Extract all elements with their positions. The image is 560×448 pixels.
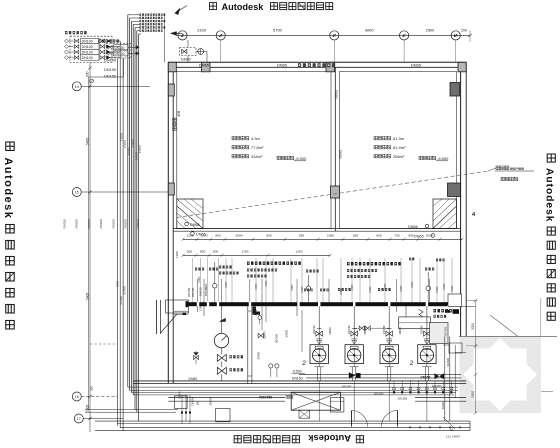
svg-text:DN65: DN65 — [257, 352, 261, 360]
svg-text:5700: 5700 — [273, 28, 282, 33]
vertical dimension in watermark — [475, 300, 477, 413]
discharge below pump P4 — [426, 364, 428, 367]
svg-text:DN65: DN65 — [263, 332, 267, 340]
small valve X — [258, 333, 263, 337]
tank bottom wall — [173, 228, 460, 230]
svg-text:Autodesk: Autodesk — [544, 168, 555, 222]
svg-text:-5.500: -5.500 — [292, 370, 302, 374]
svg-text:900*900: 900*900 — [510, 167, 524, 171]
fire pump P4 — [418, 345, 436, 364]
svg-text:DN100: DN100 — [82, 56, 93, 60]
stair wall outside left wall — [156, 300, 158, 334]
svg-text:1700: 1700 — [242, 250, 249, 254]
landing box — [166, 300, 189, 313]
label pump connectors — [65, 31, 67, 34]
valve stack above pump P2 — [351, 331, 358, 336]
grid bubble 15 — [72, 188, 81, 197]
pipe main 2 — [129, 18, 131, 390]
fire dept connection box 2 (dashed) — [106, 44, 131, 58]
grid bubble 14 — [72, 82, 81, 91]
connector row 3 — [65, 50, 69, 54]
column top-right corner — [458, 62, 466, 72]
tank inner wall left tank — [177, 72, 331, 229]
pipe main 3 — [130, 21, 132, 392]
svg-text:DN65: DN65 — [369, 286, 372, 293]
svg-text:1000: 1000 — [426, 234, 433, 238]
pit box A — [175, 396, 188, 409]
svg-text:DN100: DN100 — [115, 52, 125, 56]
suction drop to pump P1 — [318, 306, 320, 345]
svg-text:2500: 2500 — [426, 28, 435, 33]
drop pipes below header — [196, 306, 198, 312]
discharge manifold line 1 — [299, 374, 461, 376]
svg-text:600: 600 — [376, 234, 381, 238]
svg-text:DN65: DN65 — [411, 63, 421, 68]
main suction header pipe — [188, 302, 447, 306]
valve stack above pump P1 — [316, 331, 323, 336]
svg-text:DN100: DN100 — [82, 40, 93, 44]
valve stack above pump P3 — [386, 331, 393, 336]
secondary riser turns — [116, 424, 118, 426]
right tank level label — [419, 156, 423, 160]
pipe legend labels top-left — [140, 14, 142, 16]
bottom pipe run 1 — [128, 386, 458, 388]
svg-text:DN50: DN50 — [285, 330, 289, 338]
fire pump P3 — [380, 345, 398, 364]
bold label 2xDN100 — [434, 309, 437, 312]
svg-text:DN65: DN65 — [451, 285, 454, 292]
expansion joint — [419, 310, 423, 318]
svg-text:XHS-3: XHS-3 — [127, 147, 131, 156]
pipe main 4 — [132, 24, 134, 395]
svg-text:3000: 3000 — [236, 234, 243, 238]
svg-text:DN100: DN100 — [104, 58, 117, 63]
svg-text:DN150: DN150 — [87, 219, 91, 229]
svg-text:500: 500 — [213, 250, 218, 254]
door swing — [161, 314, 178, 333]
svg-text:DN65: DN65 — [414, 235, 424, 239]
pressure gauge — [221, 306, 223, 333]
junction nodes row — [393, 387, 396, 390]
svg-text:DN65: DN65 — [400, 285, 403, 292]
fire dept connection box 1 (dashed) — [70, 36, 112, 62]
stub pipes above header — [196, 279, 198, 302]
column right wall upper — [450, 83, 460, 97]
header end cap left — [186, 301, 189, 307]
title text right: Autodesk educational (vertical) — [544, 154, 556, 320]
discharge below pump P1 — [318, 364, 320, 367]
svg-text:5400: 5400 — [86, 137, 90, 145]
svg-text:DN65: DN65 — [199, 63, 209, 68]
pump discharge continuations — [318, 381, 320, 421]
title text left: Autodesk educational (vertical) — [2, 142, 14, 329]
label connectors 2 — [98, 39, 100, 42]
svg-text:1050: 1050 — [327, 234, 334, 238]
svg-text:Autodesk: Autodesk — [308, 433, 352, 444]
title text top: Autodesk educational — [210, 2, 333, 12]
short pipes left of header start — [174, 310, 188, 312]
drain box with X — [299, 410, 310, 418]
svg-text:Autodesk: Autodesk — [222, 2, 265, 12]
discharge manifold line 2 — [306, 377, 461, 379]
left tank data text — [232, 136, 236, 140]
crossover valves between P2 P3 — [359, 326, 364, 330]
left tank outlet structure — [177, 199, 203, 229]
svg-text:DN65: DN65 — [443, 283, 446, 290]
svg-text:DN65: DN65 — [198, 276, 201, 283]
title text bottom: Autodesk educational (rotated) — [234, 433, 363, 444]
svg-text:XHS-4: XHS-4 — [131, 139, 135, 148]
label embedded DN100 pipe — [298, 63, 301, 67]
header end stubs right — [445, 302, 450, 305]
svg-text:266m³: 266m³ — [393, 154, 405, 159]
svg-text:61.3m: 61.3m — [393, 136, 405, 141]
svg-text:5400: 5400 — [86, 292, 90, 300]
discharge below pump P2 — [353, 364, 355, 367]
pressure tank circles — [269, 364, 273, 368]
svg-text:1200: 1200 — [187, 234, 194, 238]
grid bubble 1 — [178, 31, 187, 40]
svg-text:DN150: DN150 — [136, 219, 140, 229]
slope symbol — [220, 318, 226, 321]
grid bubble 17 — [74, 414, 83, 423]
pipe main 7 — [138, 34, 140, 421]
svg-text:15: 15 — [75, 191, 79, 195]
svg-text:950: 950 — [353, 234, 358, 238]
thin riser hairlines above header — [192, 258, 194, 302]
suction drop to pump P4 — [426, 306, 428, 345]
DN150 elbow from box2 — [123, 58, 125, 77]
gray pedestal box above P4 — [430, 323, 449, 344]
column top wall A — [202, 62, 211, 72]
svg-text:DN150: DN150 — [421, 375, 431, 379]
black arrow marks — [349, 373, 355, 379]
grid bubble 16 — [72, 392, 81, 401]
svg-text:100: 100 — [196, 400, 200, 405]
svg-text:DN100: DN100 — [99, 219, 103, 229]
svg-text:334m³: 334m³ — [251, 154, 263, 159]
svg-text:1500: 1500 — [115, 281, 119, 288]
svg-text:DN150: DN150 — [199, 287, 203, 296]
butterfly valve small — [194, 355, 199, 359]
svg-text:1200: 1200 — [175, 251, 179, 258]
svg-text:-5.500: -5.500 — [437, 156, 449, 161]
svg-text:DN150: DN150 — [104, 67, 117, 72]
suction drop to pump P3 — [388, 306, 390, 345]
fire pump P2 — [345, 345, 363, 364]
svg-text:950: 950 — [299, 234, 304, 238]
sump pit label — [496, 166, 500, 170]
svg-text:DN65: DN65 — [277, 63, 287, 68]
water meter assembly DN80 — [180, 48, 197, 56]
right tank outlet structure — [433, 199, 457, 229]
zigzag fitting — [254, 308, 257, 316]
svg-text:77.8m²: 77.8m² — [251, 145, 264, 150]
svg-text:DN65: DN65 — [340, 288, 343, 295]
svg-text:900: 900 — [408, 234, 413, 238]
fire pump P1 — [310, 345, 328, 364]
svg-text:850: 850 — [86, 71, 90, 77]
vertical riser pair — [247, 306, 249, 384]
svg-text:1300: 1300 — [201, 234, 208, 238]
svg-text:DN150: DN150 — [432, 384, 442, 388]
building right wall — [460, 62, 462, 336]
svg-text:DN150: DN150 — [446, 358, 450, 367]
grid bubble M — [451, 31, 460, 40]
svg-text:DN100: DN100 — [124, 219, 128, 229]
svg-text:DN100: DN100 — [312, 326, 316, 335]
grid drop lines — [220, 40, 222, 62]
pipe main 6 — [136, 31, 138, 412]
svg-text:DN100: DN100 — [82, 51, 93, 55]
svg-text:DN100: DN100 — [191, 287, 195, 297]
svg-text:XHS-1: XHS-1 — [120, 133, 124, 142]
dimension ticks — [181, 34, 184, 37]
svg-text:300: 300 — [90, 386, 94, 391]
connector row 2 — [65, 45, 69, 49]
equipment pad hatched — [291, 392, 340, 410]
svg-text:DN80: DN80 — [334, 90, 338, 99]
right horizontal stubs — [443, 344, 449, 346]
svg-text:DN50: DN50 — [178, 391, 182, 399]
svg-text:DN100: DN100 — [204, 287, 208, 296]
left tank outlet DN65 labels — [185, 222, 189, 226]
svg-text:DN150: DN150 — [398, 397, 408, 401]
bottom pipe run 4 — [133, 394, 454, 396]
tank divider wall — [334, 67, 336, 231]
bottom pipe run 2 — [130, 389, 458, 391]
svg-text:1300: 1300 — [199, 304, 203, 311]
label main valve 2 — [230, 368, 232, 371]
small drops — [261, 306, 263, 330]
legend bracket line — [164, 14, 166, 62]
wall segment bottom left — [168, 397, 285, 399]
svg-text:500: 500 — [187, 250, 192, 254]
pit box B — [216, 408, 230, 421]
discharge below pump P3 — [388, 364, 390, 367]
pump room dimension line 2 — [183, 254, 330, 256]
right exit riser 2 — [449, 336, 451, 421]
svg-text:121 14847: 121 14847 — [446, 435, 461, 439]
svg-text:3000: 3000 — [365, 28, 374, 33]
riser circle B — [306, 286, 310, 290]
svg-text:16: 16 — [75, 395, 79, 399]
svg-text:14: 14 — [75, 85, 79, 89]
svg-text:DN100: DN100 — [115, 46, 125, 50]
svg-text:DN150: DN150 — [111, 219, 115, 229]
bottom right leader + note — [443, 417, 455, 429]
svg-text:DN150: DN150 — [444, 327, 448, 336]
control cabinet box — [399, 317, 431, 329]
valve stack above pump P4 — [424, 331, 431, 336]
svg-text:XHS-2: XHS-2 — [123, 140, 127, 149]
double door leaf left — [352, 411, 368, 427]
leader arrow top — [175, 8, 180, 14]
equipment label cluster row — [195, 268, 197, 271]
right tank outlet DN65 labels — [425, 224, 429, 228]
building top wall — [168, 61, 466, 63]
svg-text:DN65: DN65 — [225, 281, 228, 288]
svg-text:DN65: DN65 — [291, 284, 294, 291]
leader to pit — [490, 315, 518, 336]
svg-text:DN65: DN65 — [436, 286, 439, 293]
svg-text:DN100: DN100 — [75, 219, 79, 229]
pipe main 1 — [127, 15, 129, 387]
svg-text:DN100: DN100 — [123, 286, 127, 295]
svg-text:700X750: 700X750 — [259, 396, 273, 400]
connector2 row 2 — [108, 52, 112, 56]
main gate valve 2 — [217, 367, 226, 374]
svg-text:DN50: DN50 — [338, 150, 342, 159]
double door leaf right — [382, 411, 398, 427]
svg-text:1300: 1300 — [296, 250, 303, 254]
svg-text:DN150: DN150 — [342, 385, 352, 389]
grid bubble L — [400, 31, 409, 40]
suction drop to pump P2 — [353, 306, 355, 345]
svg-text:B1F: B1F — [177, 111, 181, 117]
svg-text:DN100: DN100 — [347, 326, 351, 335]
column right wall lower — [448, 183, 461, 197]
svg-text:M: M — [454, 33, 458, 38]
column top wall B — [326, 62, 335, 72]
svg-text:500: 500 — [200, 250, 205, 254]
svg-text:4.3m: 4.3m — [251, 136, 261, 141]
line from header to cabinet — [405, 306, 407, 317]
right stub box — [449, 343, 462, 353]
svg-text:DN65: DN65 — [408, 225, 418, 229]
svg-text:DN100: DN100 — [382, 326, 386, 335]
svg-text:2100: 2100 — [197, 28, 206, 33]
bottom-left exit pipes — [85, 409, 178, 411]
bottom pipe run 3 — [131, 392, 456, 394]
secondary risers from connection boxes — [116, 59, 118, 426]
connector2 row 1 — [108, 46, 112, 50]
svg-text:DN80: DN80 — [328, 328, 332, 336]
left tank level label — [277, 156, 281, 160]
svg-text:2: 2 — [301, 360, 306, 367]
pump room floor wall — [133, 380, 466, 382]
svg-text:DN50: DN50 — [189, 377, 198, 381]
svg-text:DN100: DN100 — [275, 334, 279, 343]
watermark right edge line — [540, 298, 542, 336]
connector row 1 — [65, 39, 69, 43]
dashed extension line — [90, 343, 117, 345]
svg-text:Autodesk: Autodesk — [2, 158, 14, 220]
svg-text:DN150: DN150 — [292, 377, 303, 381]
svg-text:750: 750 — [394, 234, 399, 238]
svg-text:DN65: DN65 — [255, 283, 258, 290]
svg-text:DN65: DN65 — [411, 281, 414, 288]
drop pipes left — [181, 395, 183, 424]
svg-text:XHS-6: XHS-6 — [138, 145, 142, 154]
column top-left corner — [168, 62, 176, 72]
right exit riser 3 — [454, 345, 456, 398]
svg-text:DN65: DN65 — [301, 286, 304, 293]
svg-text:DN150: DN150 — [63, 219, 67, 229]
small fitting circles — [258, 316, 262, 320]
line across watermark top — [459, 335, 557, 337]
connector row 4 — [65, 56, 69, 60]
svg-text:DN100: DN100 — [420, 326, 424, 335]
tank inner wall right tank — [340, 72, 457, 229]
header gaps at tees — [197, 302, 199, 307]
column divider wall — [331, 186, 340, 198]
svg-text:DN150: DN150 — [104, 74, 117, 79]
pressure pump spec label — [247, 262, 250, 265]
svg-text:800: 800 — [215, 234, 220, 238]
svg-text:61.9m²: 61.9m² — [393, 145, 406, 150]
watermark logo square — [460, 337, 542, 414]
svg-text:DN65: DN65 — [190, 223, 200, 227]
main gate valve 1 — [217, 354, 226, 361]
elbow fittings black — [253, 307, 256, 315]
svg-text:2000: 2000 — [86, 404, 90, 412]
tick dots on bottom run — [409, 427, 411, 429]
svg-text:DN150: DN150 — [191, 396, 195, 405]
top dimension line — [176, 34, 471, 36]
right exit riser 1 — [444, 336, 446, 421]
pump room dimension line 1 — [183, 238, 462, 240]
svg-text:DN65: DN65 — [351, 284, 354, 291]
svg-text:DN80: DN80 — [181, 58, 191, 62]
svg-text:2000: 2000 — [471, 391, 475, 398]
svg-text:DN65: DN65 — [441, 402, 445, 410]
svg-text:DN100: DN100 — [82, 45, 93, 49]
riser circle A — [213, 284, 217, 288]
vent symbol — [90, 79, 94, 83]
svg-text:DN65: DN65 — [384, 283, 387, 290]
bottom outer runs — [95, 420, 470, 422]
riser circle C — [426, 286, 430, 290]
svg-text:17: 17 — [77, 417, 81, 421]
svg-text:2000: 2000 — [471, 323, 475, 330]
svg-text:-5.500: -5.500 — [295, 156, 307, 161]
svg-text:XHS-5: XHS-5 — [134, 152, 138, 161]
svg-text:DN65: DN65 — [265, 280, 268, 287]
svg-text:200: 200 — [461, 29, 467, 33]
svg-text:900: 900 — [266, 234, 271, 238]
svg-text:DN150: DN150 — [119, 296, 123, 305]
grid bubble J — [216, 31, 225, 40]
right tank data text — [374, 136, 378, 140]
building left wall — [167, 62, 169, 383]
svg-text:DN150: DN150 — [209, 396, 213, 405]
grid bubble K — [330, 31, 339, 40]
check valve (filled) on manifold — [435, 373, 445, 379]
column left wall lower — [168, 183, 174, 195]
junction box at header right end — [448, 294, 462, 307]
wall segment bottom right — [415, 397, 466, 399]
right edge short tick — [541, 391, 553, 393]
svg-text:-51: -51 — [449, 428, 454, 432]
column left wall upper — [168, 84, 174, 96]
watermark star — [463, 338, 537, 411]
label main valve 1 — [230, 355, 232, 358]
svg-text:2: 2 — [409, 360, 414, 367]
thin continuation line right — [462, 306, 476, 308]
north-west leader arrow — [171, 32, 177, 36]
pipe main 5 — [134, 28, 136, 410]
overflow dashed leader line — [177, 171, 489, 218]
small tank box — [330, 398, 344, 412]
left vertical dimension line — [89, 62, 91, 432]
